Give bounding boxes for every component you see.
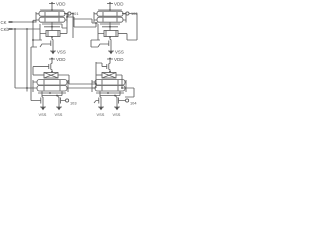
VSS ground symbol cell 2 <box>108 48 114 55</box>
svg-text:VSS: VSS <box>55 112 63 117</box>
wire bottom rail cell 2 <box>100 22 120 30</box>
coupling box X2 (cell 4) <box>102 73 116 79</box>
output port wire O1 (cell 1) <box>64 13 68 15</box>
node bracket top <box>32 39 34 41</box>
VDD supply symbol cell 1 <box>49 2 55 10</box>
node top rail cell 1 <box>51 9 53 11</box>
node box bottom cell 1 <box>51 36 53 38</box>
node CKb bus <box>26 28 28 30</box>
transistor pair M8/M9 (row 2, cell 2) <box>94 17 126 23</box>
output port circle O1 <box>68 12 71 15</box>
node head cell 4 <box>109 71 111 73</box>
wire CKb left bus vertical <box>15 29 33 88</box>
svg-text:CKb: CKb <box>1 27 10 32</box>
transistor pair M3/M4 (row 2, cell 1) <box>36 17 67 23</box>
svg-text:104: 104 <box>130 101 137 106</box>
wire P2 gate hook cell 4 <box>96 62 102 88</box>
wire cross-couple D (cell3 to cell4) <box>69 83 96 85</box>
node CK bus <box>32 21 34 23</box>
node cross D <box>95 83 97 85</box>
transistor M5 tail (cell 1) <box>49 37 53 48</box>
wire bottom rails cell 3 <box>38 92 66 96</box>
wire feedback hook cell 4 right <box>122 88 134 97</box>
transistor M15 (cell 3 tail left) <box>41 96 43 105</box>
wire box right lead cell 2 <box>118 33 127 35</box>
wire gate bracket cell 1 <box>31 40 49 47</box>
transistor M10 tail (cell 2) <box>107 37 111 48</box>
node CKb left bus <box>14 28 16 30</box>
node cross wires join <box>95 22 97 24</box>
node rail cell 3 left <box>49 92 51 94</box>
VSS ground symbol cell 4 left <box>98 105 104 111</box>
wire top rail cell 1 <box>40 9 64 11</box>
node bottom rail cell 1 <box>51 26 53 28</box>
transistor pair M19/M20 (row 2, cell 4) <box>92 86 126 93</box>
VSS ground symbol cell 4 right <box>114 105 120 111</box>
wire cross-couple A (cell1 to cell2) <box>71 14 98 24</box>
svg-text:VSS: VSS <box>115 50 124 55</box>
wire X2 left lead <box>96 74 102 76</box>
wire CKb line <box>13 28 41 30</box>
wire CK line <box>13 20 37 22</box>
svg-text:VDD: VDD <box>114 1 124 6</box>
transistor M16 (cell 3 tail right) <box>58 96 66 105</box>
node hook cell 4 <box>121 87 123 89</box>
node rail cell 3 right <box>56 95 58 97</box>
VDD supply symbol cell 3 <box>49 57 55 63</box>
node head cell 3 <box>51 71 53 73</box>
svg-text:CK: CK <box>1 20 7 25</box>
svg-text:VDD: VDD <box>114 57 124 62</box>
wire stub right of box cell 1 <box>72 19 74 38</box>
svg-text:VSS: VSS <box>39 112 47 117</box>
transistor P2 (cell 4 head) <box>102 63 110 73</box>
wire X1 left lead <box>33 74 44 76</box>
bias port circle cell 3 <box>66 99 69 102</box>
current-source box I1 (cell 1) <box>46 31 60 37</box>
wire CKb bus vertical <box>26 29 28 92</box>
wire CK bus lower (to cell3 tail gate) <box>31 47 41 101</box>
node bottom rail cell 2 <box>109 26 111 28</box>
current-source box I2 (cell 2) <box>104 31 118 37</box>
output port wire O2 (cell 2) <box>122 13 126 15</box>
transistor M22 (cell 4 tail right) <box>116 96 126 105</box>
wire feedback vertical cell 1 <box>66 14 68 34</box>
transistor pair M13/M14 (row 2, cell 3) <box>33 86 68 93</box>
output port circle O2 <box>126 12 129 15</box>
transistor pair M6/M7 (row 1, cell 2) <box>94 11 126 17</box>
wire X1 right lead <box>58 75 69 84</box>
node rail cell 4 left <box>107 92 109 94</box>
wire top rail cell 2 <box>98 9 122 11</box>
wire X2 right lead <box>116 75 122 88</box>
VDD supply symbol cell 4 <box>107 57 113 63</box>
transistor P1 (cell 3 head) <box>33 63 52 73</box>
CKb port arrow <box>9 28 13 30</box>
node box bottom cell 2 <box>109 36 111 38</box>
wire gate bracket cell 2 <box>91 40 107 47</box>
svg-text:VDD: VDD <box>56 1 66 6</box>
VSS ground symbol cell 3 right <box>56 105 62 111</box>
transistor M21 (cell 4 tail left) <box>94 96 101 105</box>
node cross wire B <box>66 16 68 18</box>
transistor pair M17/M18 (row 1, cell 4) <box>92 80 126 86</box>
svg-text:VSS: VSS <box>57 50 66 55</box>
wire cross-couple B (cell1 to cell2) <box>67 17 96 27</box>
transistor pair M11/M12 (row 1, cell 3) <box>33 80 68 86</box>
wire feedback hook cell 2 <box>127 14 137 41</box>
wire CK bus vertical <box>32 22 34 47</box>
wire bottom rails cell 4 <box>96 92 124 96</box>
node rail cell 4 right <box>114 95 116 97</box>
wire P1 gate hook cell 3 <box>32 67 34 75</box>
svg-text:103: 103 <box>70 101 77 106</box>
wire box right lead cell 1 <box>60 33 67 35</box>
wire box left lead cell 2 <box>98 24 104 40</box>
VSS ground symbol cell 1 <box>50 48 56 55</box>
svg-text:VDD: VDD <box>56 57 66 62</box>
svg-text:VSS: VSS <box>97 112 105 117</box>
wire cross-couple C (cell3 to cell4) <box>68 87 96 89</box>
wire box left lead cell 1 <box>40 24 46 40</box>
VDD supply symbol cell 2 <box>107 2 113 10</box>
transistor pair M1/M2 (row 1, cell 1) <box>36 11 68 17</box>
svg-text:VSS: VSS <box>113 112 121 117</box>
bias port circle cell 4 <box>126 99 129 102</box>
node cross wire A <box>72 13 74 15</box>
wire bottom rail cell 1 <box>42 22 67 30</box>
coupling box X1 (cell 3) <box>44 73 58 79</box>
node CKb crossing <box>26 87 28 89</box>
CK port arrow <box>9 21 13 23</box>
VSS ground symbol cell 3 left <box>40 105 46 111</box>
node top rail cell 2 <box>109 9 111 11</box>
